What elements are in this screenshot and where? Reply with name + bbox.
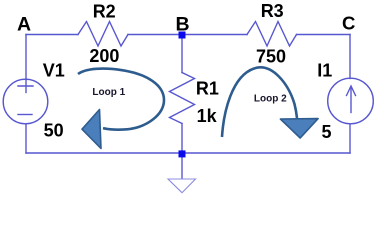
wire left vertical A down to V1 [25,35,27,80]
I1 arrow [350,87,352,113]
wire node B down to R1 [181,39,183,73]
node B square [179,32,186,39]
svg-text:V1: V1 [43,60,65,80]
wire V1 bottom down to bottom rail [25,124,27,153]
resistor R3 [247,22,297,47]
svg-text:B: B [176,14,190,36]
loop 2 arrowhead [280,119,318,138]
resistor R2 [78,22,128,47]
wire R3 to C corner [297,34,351,36]
svg-text:C: C [342,13,355,34]
loop 1 arrowhead [82,110,101,149]
junction square bottom [179,150,186,157]
current source I1 circle [328,78,374,124]
svg-text:A: A [17,14,31,36]
loop 1 arrow curve [78,69,164,130]
wire R1 to bottom junction [181,124,183,154]
voltage source V1 circle [3,79,48,124]
wire R2 to node B to R3 [128,34,247,36]
svg-text:5: 5 [322,122,332,142]
wire top-left horizontal A to R2 [26,34,78,36]
svg-text:750: 750 [256,47,286,67]
svg-text:50: 50 [44,121,64,141]
V1 plus sign [18,85,33,87]
svg-text:R3: R3 [261,1,284,21]
loop 2 arrow curve [222,67,297,137]
ground [168,157,196,193]
svg-text:1k: 1k [197,106,218,126]
wire right vertical C down to I1 [349,35,351,79]
svg-text:Loop 1: Loop 1 [92,87,125,98]
svg-text:200: 200 [89,46,119,66]
svg-text:Loop 2: Loop 2 [254,94,287,105]
svg-text:I1: I1 [317,61,332,81]
bottom rail wire [26,152,350,154]
svg-text:R2: R2 [93,2,116,22]
svg-text:R1: R1 [196,78,219,98]
resistor R1 [170,73,195,124]
wire I1 bottom to bottom rail [349,124,351,153]
V1 minus sign [18,114,32,116]
